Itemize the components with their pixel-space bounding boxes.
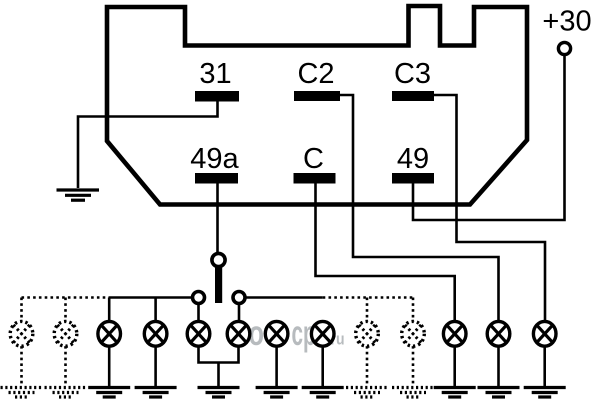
ground lamp L13	[524, 388, 566, 398]
ground lamp L10 dotted	[392, 388, 434, 398]
ground stub lamp L7	[275, 346, 278, 386]
terminal bar C3	[392, 91, 434, 101]
terminal bar C	[294, 173, 336, 184]
lamp L3	[98, 321, 121, 346]
ground lamp L9 dotted	[346, 388, 388, 398]
ground lamps L5 L6 shared	[198, 388, 240, 398]
bus wire solid left	[109, 296, 193, 299]
ground lamp L4	[135, 388, 177, 398]
wire C2 to lamp L12	[339, 95, 499, 322]
ground lamp L12	[478, 388, 520, 398]
lamp L9 dotted	[356, 321, 379, 346]
switch contact circle left	[193, 292, 205, 304]
switch arm	[215, 267, 222, 303]
terminal circle +30	[558, 42, 570, 54]
feed wire lamp L10 dotted	[412, 298, 415, 323]
bus wire dotted left	[22, 296, 110, 299]
feed wire lamp L4	[154, 298, 157, 323]
lamp L2 dotted	[54, 321, 77, 346]
svg-text:49: 49	[397, 143, 429, 175]
ground stub lamp L1 dotted	[20, 346, 23, 386]
lamp L7	[265, 321, 288, 346]
ground lamp L7	[256, 388, 298, 398]
lamp L5	[187, 321, 210, 346]
svg-text:31: 31	[199, 58, 231, 90]
svg-text:+30: +30	[542, 6, 591, 38]
bus wire dotted right	[323, 296, 413, 299]
switch pivot circle	[212, 253, 225, 266]
wire C3 to lamp L13	[433, 95, 545, 322]
ground lamp L2 dotted	[45, 388, 87, 398]
feed wire lamp L2 dotted	[64, 298, 67, 323]
svg-text:49a: 49a	[190, 143, 239, 175]
svg-text:C3: C3	[394, 58, 431, 90]
svg-text:c: c	[292, 314, 304, 353]
terminal bar 49	[392, 173, 434, 184]
svg-text:C: C	[303, 143, 324, 175]
wire 31 to ground	[78, 101, 218, 188]
ground stub lamp L4	[154, 346, 157, 386]
lamp L11	[443, 321, 466, 346]
svg-text:C2: C2	[297, 58, 334, 90]
bus wire solid right	[245, 296, 323, 299]
lamp L4	[144, 321, 167, 346]
feed wire lamp L1 dotted	[20, 298, 23, 323]
lamp L6	[227, 321, 250, 346]
ground stub lamp L11	[453, 346, 456, 386]
ground lamp L11	[434, 388, 476, 398]
ground lamp L3	[88, 388, 130, 398]
ground lamp L8	[302, 388, 344, 398]
ground lamp L1 dotted	[1, 388, 43, 398]
lamp L8	[311, 321, 334, 346]
wire contact left to lamp L5	[197, 304, 200, 323]
wire C to lamp L11	[316, 183, 455, 322]
ground stub lamp L2 dotted	[64, 346, 67, 386]
ground stub lamp L12	[497, 346, 500, 386]
ground stub lamp L8	[321, 346, 324, 386]
relay body outline K1	[107, 6, 527, 205]
ground stub lamp L10 dotted	[412, 346, 415, 386]
ground (terminal 31)	[57, 190, 100, 200]
switch contact circle right	[233, 292, 245, 304]
wire 49a to switch pivot	[216, 183, 219, 254]
lamp L12	[487, 321, 510, 346]
feed wire lamp L9 dotted	[366, 298, 369, 323]
watermark oecp.ru	[249, 314, 345, 353]
terminal bar C2	[294, 91, 340, 101]
lamp L10 dotted	[402, 321, 425, 346]
terminal bar 49a	[195, 173, 238, 184]
lamp L1 dotted	[10, 321, 33, 346]
terminal bar 31	[195, 91, 239, 102]
lamp L13	[533, 321, 556, 346]
wire 49 to +30 terminal	[413, 54, 565, 220]
ground stub lamp L13	[543, 346, 546, 386]
wire contact right to lamp L6	[238, 304, 241, 323]
ground stub lamp L9 dotted	[366, 346, 369, 386]
joined ground wire lamps L5 L6	[199, 346, 239, 386]
feed wire lamp L3	[108, 298, 111, 323]
ground stub lamp L3	[108, 346, 111, 386]
